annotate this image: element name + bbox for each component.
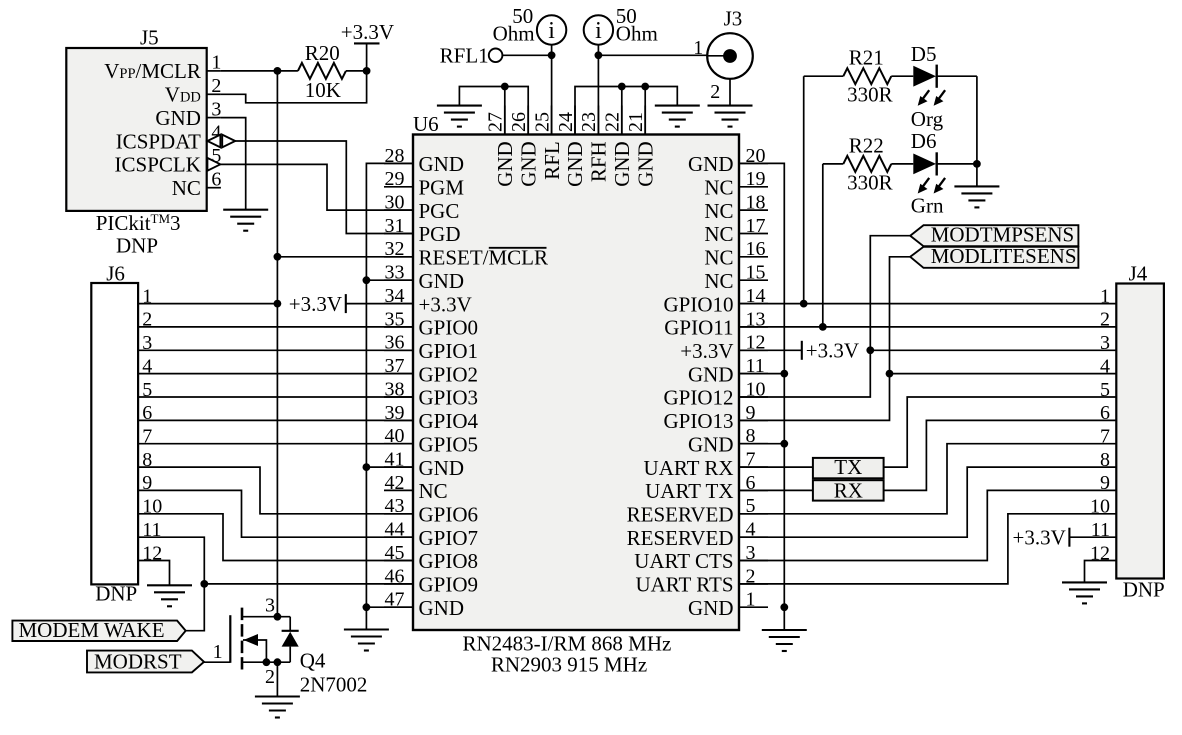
svg-text:GND: GND	[419, 596, 465, 620]
svg-text:RX: RX	[834, 478, 863, 502]
svg-text:UART RTS: UART RTS	[635, 573, 733, 597]
wire U6 pin33 GND stub	[366, 279, 413, 281]
power flag +3.3V at U6 pin34	[346, 294, 413, 313]
svg-text:330R: 330R	[847, 82, 893, 106]
svg-text:R20: R20	[305, 41, 340, 65]
svg-text:38: 38	[385, 378, 405, 400]
J6 footnote DNP	[95, 582, 137, 606]
U6 top pin 22 GND	[602, 106, 634, 187]
wire R21 vertical	[803, 76, 805, 303]
J5 pin4 bidirectional arrow glyph	[207, 135, 235, 148]
svg-text:GND: GND	[563, 141, 587, 187]
svg-text:42: 42	[385, 472, 405, 494]
wire LED cathode vertical	[976, 76, 978, 186]
svg-text:40: 40	[385, 425, 405, 447]
wire R22 to D6	[891, 163, 913, 165]
svg-text:2N7002: 2N7002	[300, 673, 368, 697]
svg-text:+3.3V: +3.3V	[806, 339, 859, 363]
svg-text:J4: J4	[1129, 262, 1148, 286]
junction dot Q4 body-source	[263, 658, 271, 666]
U6 right pin 7 UART RX	[644, 449, 768, 480]
wire R21 left	[804, 75, 844, 77]
U6 right pin 11 GND	[688, 355, 768, 386]
J5 footnote PICkit TM 3	[96, 211, 181, 235]
svg-text:GND: GND	[688, 432, 734, 456]
svg-text:GPIO12: GPIO12	[663, 386, 733, 410]
svg-text:33: 33	[385, 262, 405, 284]
wire U6 pin11 GND stub	[739, 373, 784, 375]
svg-text:GPIO5: GPIO5	[419, 432, 479, 456]
wire top-left GND bar	[459, 87, 528, 135]
svg-text:29: 29	[385, 168, 405, 190]
svg-text:ICSPDAT: ICSPDAT	[116, 129, 201, 153]
LED D6	[913, 152, 936, 175]
U6 left pin 38 GPIO3	[384, 378, 478, 409]
svg-text:Q4: Q4	[300, 649, 326, 673]
U6 left pin 35 GPIO0	[384, 308, 478, 339]
U6 top pin 26 GND	[508, 106, 540, 187]
svg-text:GPIO4: GPIO4	[419, 409, 479, 433]
svg-text:GND: GND	[419, 152, 465, 176]
svg-text:D6: D6	[911, 129, 937, 153]
resistor R20	[298, 63, 346, 79]
label 50 Ohm right	[616, 4, 658, 46]
U6 left pin 33 GND	[384, 262, 464, 293]
wire RX box to J4 pin6	[884, 420, 1117, 490]
U6 left pin 32 RESET/MCLR	[384, 238, 548, 269]
svg-text:Org: Org	[911, 107, 944, 131]
junction dot D6 cathode	[973, 160, 981, 168]
svg-text:35: 35	[385, 308, 405, 330]
svg-text:GPIO11: GPIO11	[664, 316, 733, 340]
junction dot MODLITESENS J4 pin4	[886, 370, 894, 378]
svg-text:1: 1	[213, 641, 223, 663]
label D6	[911, 129, 937, 153]
ground J6 pin12	[147, 585, 192, 606]
U6 right pin 8 GND	[688, 425, 768, 456]
svg-text:3: 3	[265, 594, 275, 616]
wire R22 left	[823, 163, 844, 165]
wire R21 to D5	[891, 75, 913, 77]
junction dot R20 right +3.3V	[363, 67, 371, 75]
svg-text:MODTMPSENS: MODTMPSENS	[931, 223, 1075, 247]
svg-text:1: 1	[1100, 285, 1110, 307]
U6 right pin 4 RESERVED	[627, 519, 768, 550]
wire UART RX to TX box	[739, 466, 813, 468]
junction dot RFH	[595, 51, 603, 59]
svg-text:1: 1	[211, 52, 221, 74]
svg-text:J3: J3	[724, 6, 743, 30]
svg-text:GND: GND	[688, 152, 734, 176]
svg-text:RESERVED: RESERVED	[627, 526, 734, 550]
wire top-right GND bar	[575, 87, 677, 135]
wire GPIO11 row to J4 pin2	[739, 326, 1116, 328]
U6 top pin 25 RFL	[531, 106, 563, 180]
resistor R22	[843, 156, 891, 172]
svg-text:UART CTS: UART CTS	[634, 549, 733, 573]
U6 left pin 43 GPIO6	[384, 495, 478, 526]
svg-text:UART RX: UART RX	[644, 456, 734, 480]
junction dot MODTMPSENS J4 pin3	[866, 346, 874, 354]
J5 pin label ICSPDAT	[116, 129, 201, 153]
ground below U6 left	[344, 630, 389, 651]
wire J6 pin11 down to node MODEM WAKE	[138, 537, 204, 631]
U6 left pin 29 PGM	[384, 168, 464, 199]
svg-text:NC: NC	[704, 246, 733, 270]
J5 pin numbers 1-6	[211, 52, 221, 191]
svg-text:37: 37	[385, 355, 405, 377]
svg-text:DNP: DNP	[95, 582, 137, 606]
svg-text:TX: TX	[834, 455, 862, 479]
svg-text:30: 30	[385, 192, 405, 214]
J5 pin label GND	[155, 106, 201, 130]
J6 pin numbers 1-12	[142, 285, 162, 564]
junction dot bar pin27	[501, 83, 509, 91]
svg-text:8: 8	[1100, 449, 1110, 471]
svg-text:43: 43	[385, 495, 405, 517]
power flag +3.3V at U6 pin12	[801, 341, 803, 360]
junction dot MCLR at J6 pin1	[274, 300, 282, 308]
J5 footnote DNP	[116, 233, 158, 257]
svg-text:46: 46	[385, 565, 405, 587]
U6 right pin 3 UART CTS	[634, 542, 768, 573]
label box RX	[813, 478, 884, 502]
svg-text:28: 28	[385, 145, 405, 167]
Q4 pin number 2	[265, 666, 275, 688]
ground J5	[223, 210, 268, 231]
wire J6 pin8 to GPIO6	[138, 467, 413, 514]
net flag MODRST	[87, 649, 204, 673]
svg-text:10: 10	[1090, 496, 1110, 518]
svg-text:7: 7	[1100, 426, 1110, 448]
svg-text:MODLITESENS: MODLITESENS	[931, 244, 1077, 268]
U6 left pin 39 GPIO4	[384, 402, 479, 433]
U6 right pin 17 NC	[704, 215, 768, 246]
wire pin22 up to bar	[621, 87, 623, 135]
net flag MODTMPSENS	[910, 223, 1078, 247]
U6 right pin 15 NC	[704, 262, 768, 293]
U6 left pin 34 +3.3V	[384, 285, 472, 316]
svg-text:1: 1	[693, 37, 703, 59]
svg-text:PGM: PGM	[419, 176, 465, 200]
label +3.3V at pin34	[289, 292, 342, 316]
junction dot bar pin21	[641, 83, 649, 91]
wire R22 vertical	[822, 164, 824, 327]
svg-text:44: 44	[385, 519, 405, 541]
svg-text:6: 6	[1100, 402, 1110, 424]
wire UART CTS to J4 pin9	[739, 490, 1116, 560]
wire J6 pin3 to U6 GPIO1	[138, 349, 413, 351]
wire GPIO13 to MODLITESENS	[739, 257, 910, 421]
LED D5 arrows	[918, 90, 945, 106]
svg-text:MODRST: MODRST	[94, 649, 182, 673]
svg-text:36: 36	[385, 332, 405, 354]
svg-text:6: 6	[211, 168, 221, 190]
svg-text:NC: NC	[704, 222, 733, 246]
svg-text:24: 24	[555, 112, 577, 132]
svg-text:26: 26	[508, 112, 530, 132]
label box TX	[813, 455, 884, 479]
wire J4 pin4 row	[890, 373, 1117, 375]
U6 left pin 28 GND	[384, 145, 464, 176]
node RFL1 label	[440, 43, 489, 67]
svg-text:+3.3V: +3.3V	[680, 339, 733, 363]
svg-text:i: i	[548, 18, 555, 44]
U6 right pin 5 RESERVED	[627, 495, 768, 526]
label +3.3V top	[341, 20, 394, 44]
junction dot bar pin22	[618, 83, 626, 91]
U6 right pin 14 GPIO10	[663, 285, 768, 316]
svg-text:3: 3	[1100, 332, 1110, 354]
resistor R21	[843, 68, 891, 84]
wire GPIO10 row to J4 pin1	[739, 303, 1116, 305]
label RN2483-I/RM 868 MHz	[462, 632, 671, 656]
svg-text:34: 34	[385, 285, 405, 307]
svg-text:PGD: PGD	[419, 222, 461, 246]
junction dot RFL	[548, 51, 556, 59]
svg-text:GPIO7: GPIO7	[419, 526, 479, 550]
label +3.3V at pin12	[806, 339, 859, 363]
wire D5 cathode	[937, 75, 977, 77]
net flag MODEM WAKE	[12, 618, 185, 642]
svg-text:25: 25	[531, 112, 553, 132]
wire ICSPCLK to PGC	[220, 164, 413, 210]
svg-text:330R: 330R	[847, 171, 893, 195]
U6 left pin 47 GND	[384, 589, 464, 620]
svg-text:GPIO1: GPIO1	[419, 339, 479, 363]
svg-text:17: 17	[746, 215, 766, 237]
LED D5	[913, 65, 936, 88]
connector J5	[66, 25, 206, 211]
svg-text:Grn: Grn	[911, 194, 944, 218]
wire J4 pin12 to ground	[1085, 561, 1117, 583]
U6 right pin 12 +3.3V	[680, 332, 768, 363]
svg-text:GND: GND	[610, 141, 634, 187]
wire J6 pin12 to ground	[138, 561, 169, 586]
power flag +3.3V at J4 pin11	[1069, 528, 1116, 547]
svg-text:9: 9	[1100, 472, 1110, 494]
U6 right pin 1 GND	[688, 589, 768, 620]
wire R20 right	[346, 70, 367, 72]
wire J6 pin9 to GPIO7	[138, 490, 413, 537]
op-amp U6 body (RN2483 module)	[413, 112, 739, 630]
svg-text:18: 18	[746, 192, 766, 214]
U6 left pin 44 GPIO7	[384, 519, 478, 550]
label R22	[849, 133, 884, 157]
wire GND bus right	[739, 163, 784, 630]
U6 right pin 19 NC	[704, 168, 768, 199]
svg-text:47: 47	[385, 589, 405, 611]
svg-text:31: 31	[385, 215, 405, 237]
ground LEDs	[954, 186, 999, 207]
svg-text:41: 41	[385, 449, 405, 471]
svg-text:5: 5	[1100, 379, 1110, 401]
J5 pin label NC	[172, 176, 201, 200]
J3 pin number 2	[710, 81, 720, 103]
J5 pin5 output arrow glyph	[207, 158, 220, 171]
J5 pin label VPP/MCLR	[104, 59, 201, 83]
wire J3 pin2 to ground	[729, 79, 731, 106]
wire J6 pin10 to GPIO8	[138, 514, 413, 561]
svg-text:Ohm: Ohm	[616, 22, 658, 46]
label 330R R21	[847, 82, 893, 106]
svg-text:+3.3V: +3.3V	[341, 20, 394, 44]
U6 right pin 10 GPIO12	[663, 378, 768, 409]
svg-text:GPIO10: GPIO10	[663, 292, 733, 316]
transistor Q4	[230, 608, 298, 670]
wire U6 pin8 GND stub	[739, 443, 784, 445]
label D5	[911, 42, 937, 66]
wire ICSPDAT to PGD	[235, 141, 414, 234]
svg-text:NC: NC	[704, 269, 733, 293]
junction dot MCLR at R20 left	[274, 67, 282, 75]
wire pin25 RFL vertical	[551, 45, 553, 135]
svg-text:21: 21	[625, 112, 647, 132]
wire GPIO9 to U6 pin46	[204, 583, 413, 585]
wire RFH to J3	[598, 54, 708, 56]
svg-text:+3.3V: +3.3V	[419, 292, 472, 316]
ground J3	[708, 106, 753, 127]
svg-text:15: 15	[746, 262, 766, 284]
J4 pin numbers 1-12	[1090, 285, 1110, 564]
U6 left pin 42 NC	[384, 472, 448, 503]
label 50 Ohm left	[493, 4, 535, 46]
svg-text:+3.3V: +3.3V	[1013, 525, 1066, 549]
label R21	[849, 45, 884, 69]
svg-text:32: 32	[385, 238, 405, 260]
svg-text:3: 3	[211, 98, 221, 120]
U6 right pin 6 UART TX	[645, 472, 768, 503]
wire MODRST to Q4 gate	[204, 661, 230, 663]
svg-text:NC: NC	[419, 479, 448, 503]
wire U6 pin47 GND stub	[366, 606, 413, 608]
ground top-right	[655, 106, 700, 127]
label 330R R22	[847, 171, 893, 195]
wire pin27 up to bar	[504, 87, 506, 135]
svg-text:GPIO0: GPIO0	[419, 316, 479, 340]
svg-text:23: 23	[578, 112, 600, 132]
svg-text:NC: NC	[172, 176, 201, 200]
connector J3	[707, 6, 753, 78]
svg-text:Ohm: Ohm	[493, 22, 535, 46]
J5 pin label VDD	[165, 83, 201, 107]
junction dot Q4 source	[274, 658, 282, 666]
wire D6 cathode	[937, 163, 977, 165]
svg-text:R22: R22	[849, 133, 884, 157]
svg-text:GND: GND	[493, 141, 517, 187]
node RFL1 open circle	[489, 49, 503, 63]
U6 left pin 31 PGD	[384, 215, 461, 246]
probe circle i RFL 50 Ohm	[537, 15, 566, 44]
wire UART RTS to J4 pin10	[739, 514, 1116, 584]
wire pin21 up to bar	[644, 87, 646, 135]
svg-text:4: 4	[1100, 355, 1110, 377]
wire J6 pin4 to U6 GPIO2	[138, 373, 413, 375]
svg-text:DNP: DNP	[116, 233, 158, 257]
junction dot Q4 drain	[274, 613, 282, 621]
svg-text:+3.3V: +3.3V	[289, 292, 342, 316]
svg-text:GPIO8: GPIO8	[419, 549, 479, 573]
junction dot GND bus pin41	[363, 463, 371, 471]
LED D6 arrows	[918, 178, 945, 194]
junction dot GPIO11 R22	[819, 323, 827, 331]
U6 left pin 45 GPIO8	[384, 542, 478, 573]
J5 pin label ICSPCLK	[115, 153, 201, 177]
U6 right pin 9 GPIO13	[663, 402, 768, 433]
svg-text:39: 39	[385, 402, 405, 424]
svg-text:GND: GND	[688, 362, 734, 386]
svg-text:VPP/MCLR: VPP/MCLR	[104, 59, 201, 83]
svg-text:GPIO6: GPIO6	[419, 503, 479, 527]
wire pin23 RFH vertical	[597, 45, 599, 135]
svg-text:GPIO2: GPIO2	[419, 362, 479, 386]
wire U6 pin41 GND stub	[366, 466, 413, 468]
wire Q4 source to ground	[276, 662, 278, 696]
wire J6 pin1 to MCLR	[138, 303, 277, 305]
wire RESERVED pin4 to J4 pin8	[739, 467, 1116, 537]
U6 left pin 36 GPIO1	[384, 332, 478, 363]
wire J5 GND pin3	[221, 118, 246, 210]
svg-text:RESERVED: RESERVED	[627, 503, 734, 527]
svg-text:2: 2	[1100, 309, 1110, 331]
wire RESET/MCLR to U6 pin32	[277, 256, 413, 258]
wire J5 pin1 to R20	[221, 70, 298, 72]
svg-text:RFL: RFL	[540, 141, 564, 180]
svg-text:GPIO13: GPIO13	[663, 409, 733, 433]
junction dot GND bus pin8	[780, 440, 788, 448]
svg-text:i: i	[595, 18, 602, 44]
U6 top pin 21 GND	[625, 106, 657, 187]
label Q4	[300, 649, 326, 673]
svg-text:U6: U6	[413, 112, 439, 136]
U6 right pin 18 NC	[704, 192, 768, 223]
J5 pin stubs 1,2,3,6	[207, 71, 221, 188]
wire J6 pin7 to U6 GPIO5	[138, 443, 413, 445]
junction dot MCLR at pin32	[274, 253, 282, 261]
wire J6 pin2 to U6 GPIO0	[138, 326, 413, 328]
probe circle i RFH 50 Ohm	[584, 15, 613, 44]
wire VDD to +3.3V	[221, 71, 367, 103]
svg-text:1: 1	[746, 589, 756, 611]
svg-text:J6: J6	[106, 262, 125, 286]
svg-text:16: 16	[746, 238, 766, 260]
wire U6 pin12 to power flag	[739, 349, 802, 351]
label 2N7002	[300, 673, 368, 697]
svg-text:27: 27	[485, 112, 507, 132]
svg-text:10K: 10K	[305, 78, 341, 102]
wire J6 pin6 to U6 GPIO4	[138, 419, 413, 421]
svg-text:GND: GND	[155, 106, 201, 130]
svg-text:DNP: DNP	[1123, 578, 1165, 602]
J3 pin number 1	[693, 37, 703, 59]
Q4 pin number 1	[213, 641, 223, 663]
svg-text:R21: R21	[849, 45, 884, 69]
U6 left pin 37 GPIO2	[384, 355, 478, 386]
junction dot GND bus pin11	[780, 370, 788, 378]
junction dot GND bus pin33	[363, 276, 371, 284]
wire GPIO12 to MODTMPSENS	[739, 236, 910, 397]
svg-text:2: 2	[265, 666, 275, 688]
wire J3 pin1 into pad	[707, 55, 728, 57]
svg-text:2: 2	[211, 75, 221, 97]
wire MCLR vertical	[276, 71, 278, 617]
ground below U6 right	[762, 630, 807, 651]
svg-text:GND: GND	[688, 596, 734, 620]
svg-text:GPIO9: GPIO9	[419, 573, 479, 597]
connector J4	[1116, 262, 1164, 579]
svg-text:NC: NC	[704, 176, 733, 200]
svg-text:19: 19	[746, 168, 766, 190]
